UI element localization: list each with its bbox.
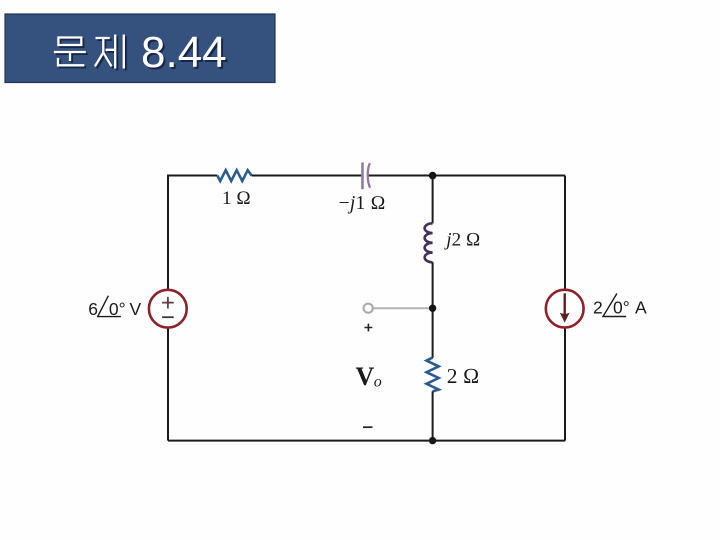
wire middle branch mid	[432, 262, 434, 358]
current source arrow	[564, 293, 566, 317]
wire middle branch lower	[432, 391, 434, 440]
svg-text:o: o	[374, 374, 382, 391]
terminal open circle	[364, 304, 373, 313]
svg-text:−j1 Ω: −j1 Ω	[339, 193, 386, 214]
svg-text:8.44: 8.44	[141, 28, 227, 77]
wire middle branch upper	[432, 176, 434, 224]
node B Vo junction	[429, 305, 436, 312]
wire left side	[167, 176, 169, 441]
wire right side	[564, 176, 566, 441]
resistor R1 (1 ohm)	[217, 170, 251, 181]
svg-text:2 Ω: 2 Ω	[447, 364, 480, 388]
svg-text:V: V	[130, 299, 142, 319]
node C bottom junction	[429, 437, 436, 444]
svg-text:V: V	[356, 362, 375, 391]
label + polarity	[365, 324, 373, 332]
wire top-left segment	[168, 176, 217, 177]
current source I1 circle	[546, 290, 584, 328]
wire top-middle segment	[252, 175, 362, 177]
svg-text:6: 6	[88, 299, 98, 319]
svg-text:1 Ω: 1 Ω	[222, 188, 251, 209]
svg-text:0°: 0°	[109, 299, 126, 319]
voltage source minus sign	[162, 316, 174, 318]
wire bottom	[168, 440, 565, 442]
capacitor C1 right curved plate	[368, 163, 370, 187]
svg-text:0°: 0°	[613, 298, 630, 318]
svg-text:A: A	[635, 298, 647, 318]
wire to terminal (gray)	[374, 307, 430, 309]
capacitor C1 (-j1 ohm) left plate	[361, 162, 364, 189]
label minus polarity	[363, 426, 373, 428]
title bar	[5, 14, 275, 83]
node A top junction	[429, 172, 437, 180]
voltage source V1 circle	[149, 290, 187, 328]
title text 문제 8.44	[54, 28, 227, 77]
voltage source plus sign	[162, 297, 174, 309]
svg-text:2: 2	[593, 298, 603, 318]
title text shadow 문제 8.44	[56, 30, 229, 79]
wire top-right segment	[369, 175, 565, 177]
resistor R2 (2 ohm)	[427, 358, 439, 392]
svg-text:j2 Ω: j2 Ω	[443, 229, 480, 250]
inductor L1 (j2 ohm)	[425, 223, 433, 262]
